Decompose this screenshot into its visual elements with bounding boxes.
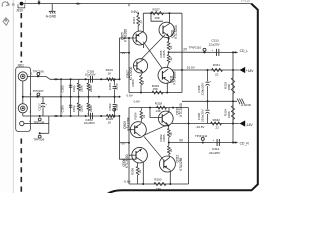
wire Q310 base link [150, 108, 162, 118]
wire riser to Q306 base [120, 116, 137, 159]
svg-text:22: 22 [142, 114, 146, 118]
svg-text:TPC106: TPC106 [33, 70, 44, 74]
svg-text:22: 22 [215, 72, 219, 76]
wire R327 row [143, 12, 182, 14]
wire left riser x129 [128, 38, 130, 93]
svg-text:KTC3200: KTC3200 [129, 67, 133, 81]
resistor R304 [88, 97, 90, 103]
wire feedback stub R [120, 142, 130, 144]
wire Q305 emitter down [143, 44, 145, 49]
wire stub to A-GND [51, 4, 53, 12]
test point circle above R channel [113, 108, 116, 111]
wire top net from J910 to frame corner [22, 3, 252, 5]
svg-text:10u/50V: 10u/50V [85, 73, 96, 77]
resistor R305b above Q309 [140, 108, 142, 111]
svg-text:22: 22 [215, 126, 219, 130]
wire x188.5 lower vertical [188, 108, 190, 184]
svg-text:CD_L: CD_L [240, 49, 249, 53]
sidebar icon 1 [2, 2, 9, 7]
svg-text:C301: C301 [108, 83, 112, 90]
svg-text:300p: 300p [114, 104, 118, 111]
resistor R332 [211, 122, 222, 125]
wire ground row right [182, 100, 237, 102]
net arrow on top wire [77, 3, 82, 5]
wire R329 row [129, 92, 182, 94]
ground A-GND top symbol [49, 10, 56, 12]
capacitor C313 [216, 49, 218, 56]
arrow down onto top wire [38, 0, 40, 2]
wire pin2 to bottom rail [22, 113, 24, 116]
svg-text:16.5V: 16.5V [187, 66, 196, 70]
wire diagonal Q309 to Q310 emitter [142, 125, 166, 136]
wire column left vertical [60, 79, 62, 116]
svg-text:15K: 15K [156, 187, 161, 191]
svg-text:KTC3200: KTC3200 [174, 25, 178, 39]
wire Q306 collector riser [142, 162, 144, 185]
svg-text:C305: C305 [60, 85, 64, 92]
net arrow on R input wire [55, 115, 60, 117]
connector J301 box [16, 67, 31, 131]
svg-text:15K: 15K [153, 87, 158, 91]
resistor R302 [78, 97, 80, 103]
svg-text:R332: R332 [213, 118, 221, 122]
junction dots top rail [60, 78, 62, 80]
node R327 right [168, 12, 170, 14]
wire top rail (L signal) [50, 78, 120, 80]
net arrow on L input wire [55, 78, 60, 80]
svg-text:J910: J910 [16, 8, 23, 12]
wire pin3 / mid rail (ground) [23, 96, 120, 98]
resistor R329 [152, 91, 163, 94]
svg-text:100K: 100K [227, 111, 231, 118]
nodes R330 row [142, 183, 144, 185]
wire Q311 collector to +rail [171, 69, 173, 72]
ground A-GND right symbol [237, 99, 240, 105]
wire Q308 base link [151, 13, 163, 21]
capacitor C314 [216, 139, 218, 146]
svg-text:22: 22 [169, 45, 173, 49]
svg-text:CD_R: CD_R [240, 141, 250, 145]
svg-text:300p: 300p [114, 83, 118, 90]
svg-text:14K: 14K [155, 109, 160, 113]
resistor R317 emitter lower [168, 143, 170, 147]
svg-text:0.6V: 0.6V [127, 93, 134, 97]
svg-text:+18V: +18V [246, 69, 255, 73]
nodes ground row [207, 100, 209, 102]
node -rail bus [232, 123, 234, 125]
svg-text:22: 22 [169, 57, 173, 61]
transistor Q308 [159, 22, 174, 37]
test point TPC106 [37, 75, 39, 77]
test point TPP109 [39, 132, 41, 134]
svg-text:C306: C306 [60, 105, 64, 112]
resistor R326 emitter lower [168, 52, 170, 54]
wire R329 right corner up [181, 70, 183, 93]
svg-text:-16.5V: -16.5V [196, 125, 206, 129]
power +18V [240, 67, 246, 73]
wire bottom rail (R signal) [50, 115, 120, 117]
wire Q311 collector down [166, 83, 168, 93]
test point TPC107 [37, 96, 39, 98]
svg-text:22: 22 [139, 20, 143, 24]
svg-text:R328: R328 [155, 101, 163, 105]
tick on top wire at x129 [128, 4, 130, 7]
resistor R330 [154, 182, 166, 185]
node +rail bus [232, 69, 234, 71]
junction dots mid rail [60, 96, 62, 98]
svg-text:0.6V: 0.6V [134, 99, 141, 103]
svg-text:KTC3200: KTC3200 [125, 154, 129, 168]
svg-text:J301: J301 [17, 63, 24, 67]
svg-text:TP(F)110: TP(F)110 [189, 45, 202, 49]
wire riser x129 lower [128, 108, 130, 184]
resistor R301 [78, 79, 80, 83]
svg-text:TPC107: TPC107 [33, 89, 44, 93]
wire Q312 collector riser [169, 170, 171, 184]
svg-text:C317: C317 [38, 103, 42, 111]
wire diagonal Q305 to Q311 base [143, 42, 162, 69]
svg-text:R330: R330 [154, 178, 162, 182]
resistor R328 [157, 106, 167, 109]
svg-text:22u/25V: 22u/25V [209, 42, 220, 46]
wire pin1 to top rail [27, 75, 46, 77]
resistor R308 below Q306 [136, 167, 139, 176]
capacitor C317 [42, 97, 44, 103]
node out L bus [232, 51, 234, 53]
svg-text:220K: 220K [89, 105, 93, 112]
resistor R327 [151, 12, 164, 15]
svg-text:220u/25V: 220u/25V [200, 109, 204, 122]
svg-text:R304: R304 [133, 112, 137, 119]
svg-text:100p: 100p [72, 85, 76, 92]
wire R328 row [129, 107, 189, 109]
wire diagonal to Q312 base [144, 137, 164, 161]
wire jack A sleeve [22, 81, 24, 104]
node C308 top [207, 69, 209, 71]
resistor R334 [232, 101, 234, 105]
svg-text:R: R [12, 2, 15, 7]
transistor Q311 [158, 67, 174, 83]
label CD_L [235, 51, 239, 53]
svg-text:220K: 220K [89, 85, 93, 92]
resistor R320 [107, 114, 115, 117]
svg-text:22: 22 [141, 80, 145, 84]
svg-text:A-GND: A-GND [240, 103, 252, 107]
svg-text:15K: 15K [154, 16, 159, 20]
capacitor C303 series [89, 76, 91, 83]
wire diagonal Q307 to Q308 emitter [141, 35, 165, 60]
dashed boundary line lower [20, 139, 22, 194]
svg-text:220K: 220K [79, 105, 83, 112]
svg-text:R308: R308 [130, 168, 134, 175]
svg-text:TP(F)111: TP(F)111 [195, 134, 208, 138]
wire +rail [172, 69, 240, 71]
svg-text:100K: 100K [227, 84, 231, 91]
sidebar background [0, 0, 13, 193]
transistor Q306 [132, 147, 148, 163]
svg-text:220u/25V: 220u/25V [200, 83, 204, 96]
label CD_R [235, 141, 239, 143]
connector J910 bracket [18, 4, 25, 8]
svg-text:1K: 1K [108, 71, 112, 75]
resistor R319 [107, 78, 115, 81]
transistor Q312 [159, 156, 175, 172]
transistor Q310 [158, 111, 173, 126]
wire pin4 [24, 123, 49, 125]
svg-text:220K: 220K [79, 85, 83, 92]
resistor R321 above Q305 [137, 13, 139, 15]
wire Q308 collector riser [168, 13, 170, 23]
wire Q306 base stub [129, 154, 137, 156]
svg-text:TPP108: TPP108 [33, 121, 44, 125]
wire feedback stub L [120, 52, 130, 54]
transistor Q309 [130, 122, 146, 138]
wire Q307 base stub [134, 65, 137, 67]
svg-text:1K: 1K [108, 121, 112, 125]
capacitor C315 [70, 79, 72, 116]
connector J910 junction [20, 2, 24, 6]
node x129 base row [128, 37, 130, 39]
connector J301 jack A [18, 72, 27, 81]
svg-text:R321: R321 [132, 17, 136, 24]
test point TPP108 [39, 115, 41, 117]
svg-text:TPP109: TPP109 [33, 138, 44, 142]
svg-text:22: 22 [169, 148, 173, 152]
capacitor C301 [114, 79, 116, 85]
wire Q309 base stub [129, 129, 135, 131]
svg-text:TP110: TP110 [241, 0, 251, 3]
svg-text:A-GND: A-GND [46, 14, 57, 18]
capacitor C304 series [89, 113, 91, 120]
nodes R329 row [140, 92, 142, 94]
wire Q305 collector riser [142, 13, 144, 32]
capacitor C309 [207, 101, 209, 109]
resistor R333 [232, 70, 234, 78]
svg-text:0V: 0V [122, 142, 126, 146]
schematic frame border [107, 4, 258, 195]
capacitor C308 [207, 70, 209, 81]
dashed boundary line upper [20, 13, 22, 63]
power -18V [240, 120, 246, 126]
capacitor C316 [69, 104, 72, 106]
node output L [168, 51, 170, 53]
svg-text:R327: R327 [153, 7, 161, 11]
wire Q310 collector riser [168, 108, 170, 113]
resistor R303 [88, 79, 90, 83]
wire right bus vertical [232, 52, 234, 142]
wire -rail [172, 123, 240, 125]
svg-text:KTA1268: KTA1268 [173, 71, 177, 84]
node output R [168, 142, 170, 144]
wire output L row [169, 51, 233, 53]
svg-text:KTC3200: KTC3200 [179, 103, 183, 117]
transistor Q307 [133, 59, 147, 73]
sidebar separator [12, 0, 14, 193]
svg-text:22u/25V: 22u/25V [209, 151, 220, 155]
resistor R325 emitter [167, 42, 170, 51]
resistor R306 below Q307 [141, 72, 143, 75]
capacitor C302 [114, 97, 116, 104]
svg-text:100p: 100p [72, 105, 76, 112]
wire riser to Q305 base [120, 38, 137, 79]
nodes R328 row [149, 107, 151, 109]
svg-text:10u/50V: 10u/50V [84, 121, 95, 125]
svg-text:KTA1268: KTA1268 [126, 117, 130, 130]
svg-text:R325: R325 [162, 50, 166, 57]
svg-text:-18V: -18V [246, 123, 254, 127]
svg-text:22: 22 [138, 169, 142, 173]
sidebar icon 2 [3, 18, 9, 25]
svg-text:0.6V: 0.6V [131, 10, 138, 14]
svg-text:KTA1268: KTA1268 [179, 158, 183, 171]
svg-text:C302: C302 [108, 103, 112, 110]
connector J301 jack B [18, 104, 27, 113]
node +rail x182 [181, 69, 183, 71]
wire chassis vertical [48, 116, 50, 133]
wire R327 right corner down [181, 13, 183, 70]
svg-text:22: 22 [169, 132, 173, 136]
svg-text:-0.6V: -0.6V [123, 180, 131, 184]
svg-text:R306: R306 [162, 134, 166, 141]
node R327 left [150, 12, 152, 14]
svg-text:R331: R331 [213, 63, 221, 67]
wire Q308 emitter to node [168, 36, 170, 41]
connector J301 pin4 circle [20, 121, 24, 125]
resistor R322 emitter upper [167, 125, 170, 129]
node out R bus [232, 142, 234, 144]
svg-text:KTA1268: KTA1268 [123, 29, 127, 42]
wire TPP109 stub [40, 132, 49, 134]
wire output R row [169, 142, 233, 144]
junction dots bottom rail [60, 115, 62, 117]
transistor Q305 [133, 31, 147, 45]
wire R330 row [129, 183, 189, 185]
resistor R331 [212, 68, 223, 71]
svg-text:R306: R306 [131, 79, 135, 86]
